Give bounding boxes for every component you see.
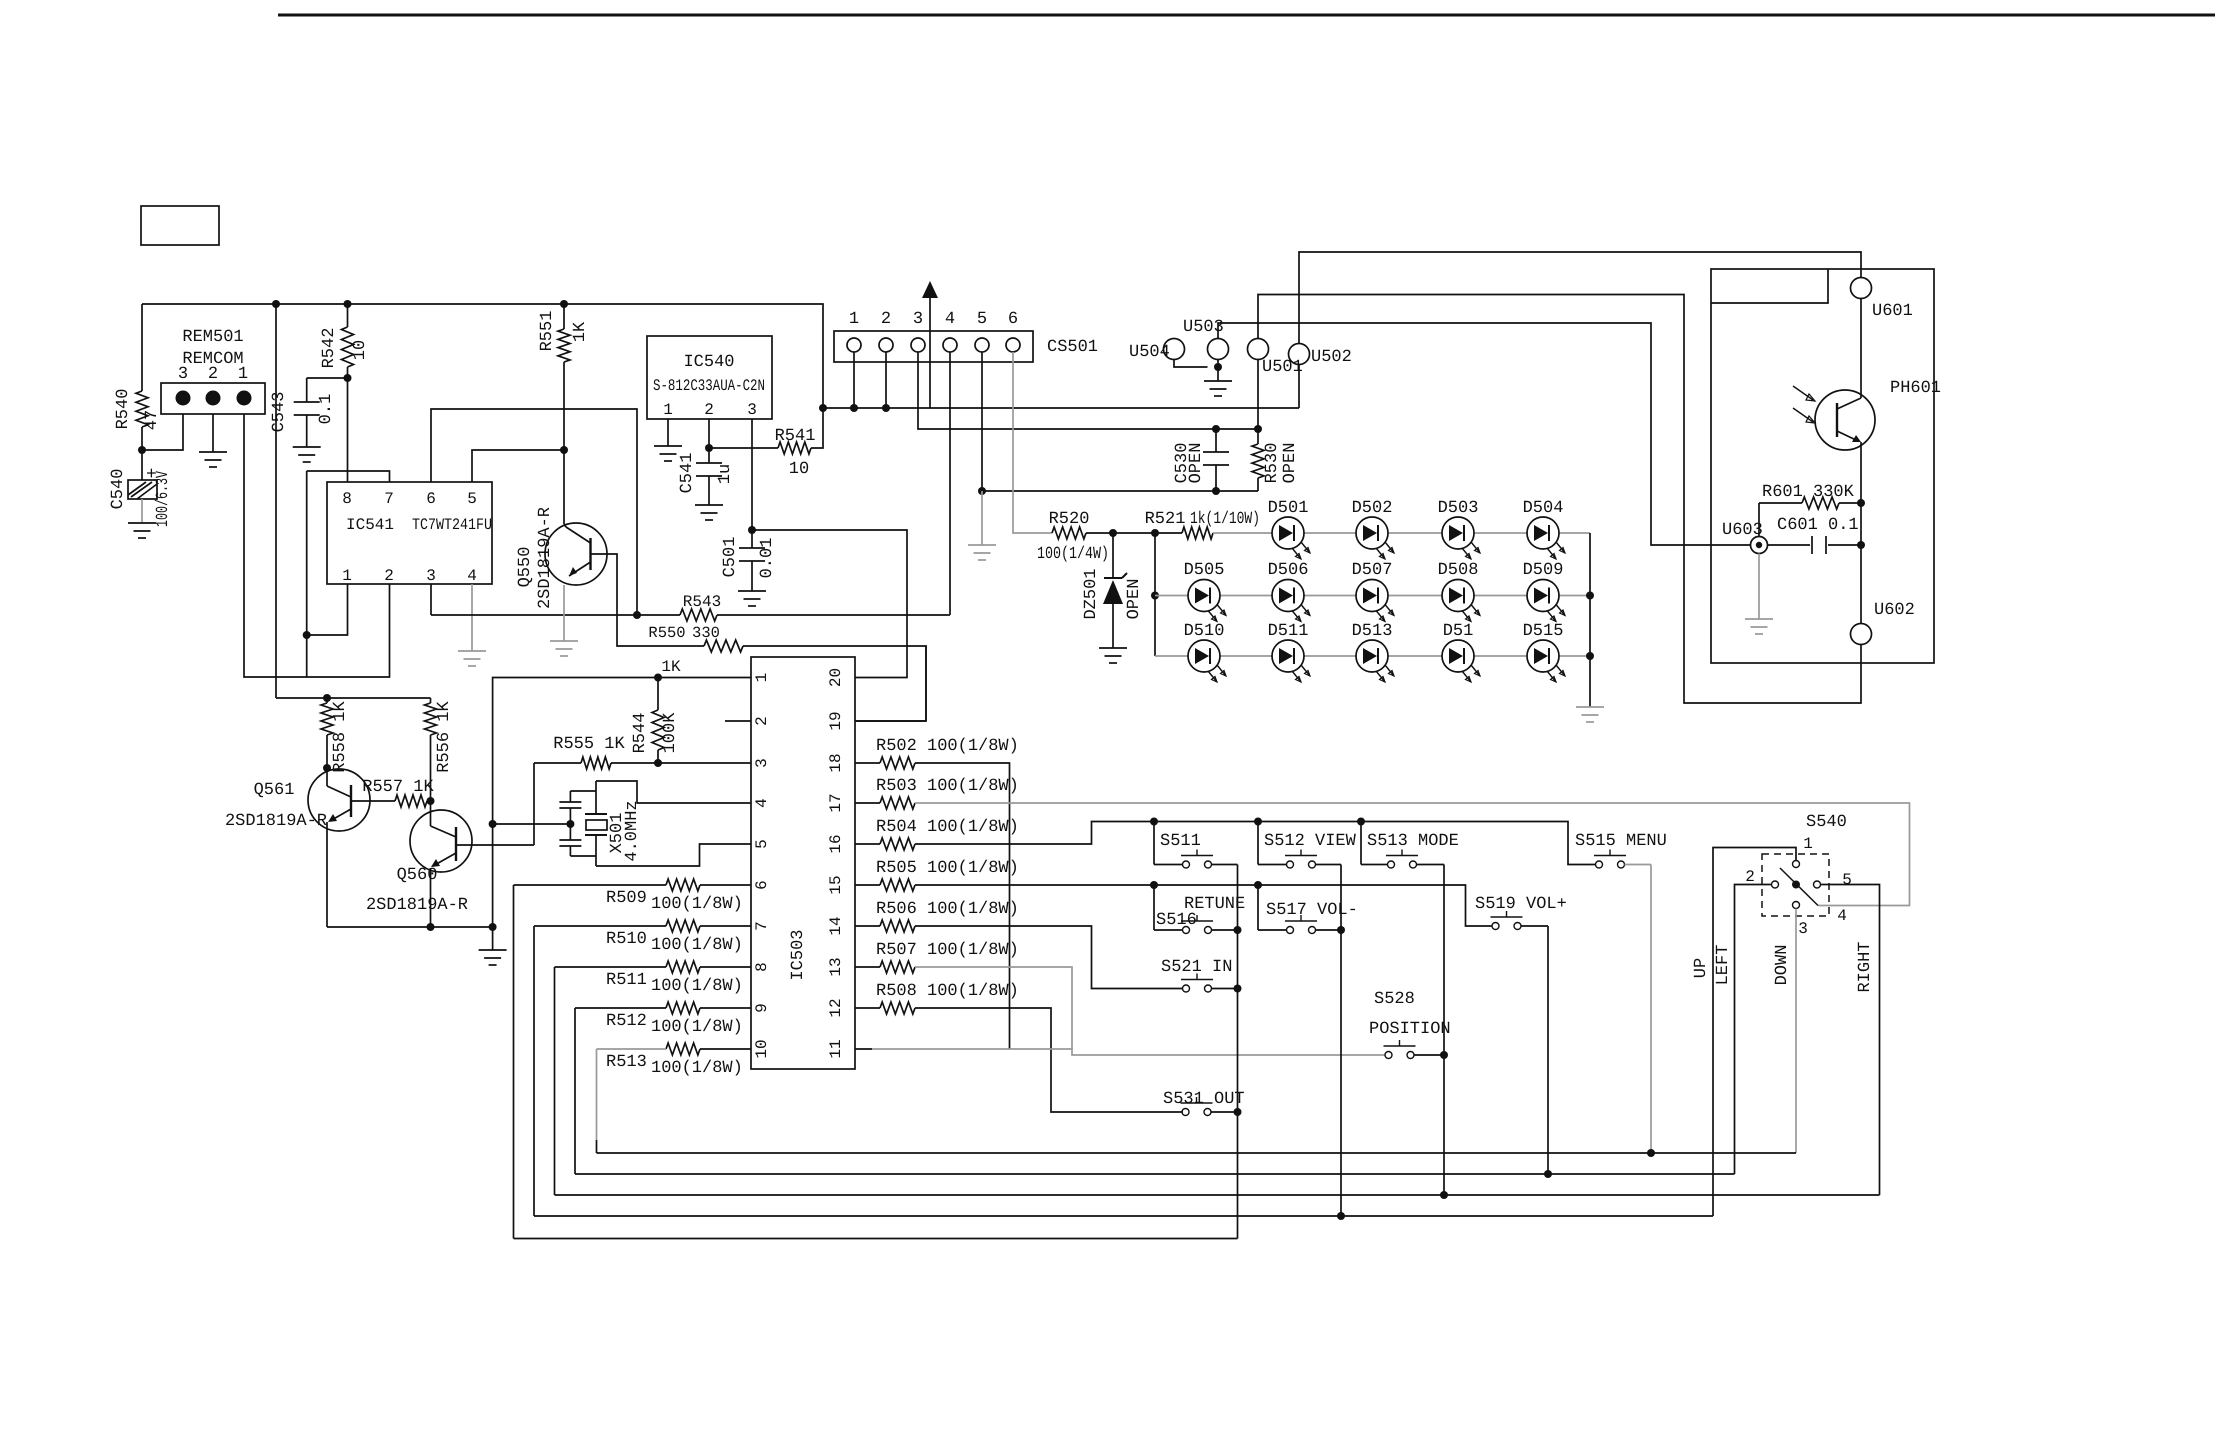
ground below emitter rail xyxy=(479,949,507,951)
wire IC541 pin6 to R543 node xyxy=(431,409,637,615)
IC IC503 xyxy=(751,657,855,1069)
svg-text:6: 6 xyxy=(426,490,436,508)
svg-text:15: 15 xyxy=(827,875,845,894)
wire S512/S517 column x=1341 xyxy=(1340,865,1342,1217)
svg-text:R555 1K: R555 1K xyxy=(553,735,625,754)
junction on bus at R542 xyxy=(344,300,352,308)
svg-text:R530: R530 xyxy=(1263,443,1282,484)
resistor R555 1K xyxy=(581,757,611,769)
svg-text:20: 20 xyxy=(827,668,845,687)
svg-text:R601 330K: R601 330K xyxy=(1762,483,1855,502)
svg-text:S-812C33AUA-C2N: S-812C33AUA-C2N xyxy=(653,377,765,395)
wire PH601 emitter down xyxy=(1860,442,1862,624)
resistor R512 100(1/8W) xyxy=(700,1007,751,1009)
pad U504 xyxy=(1164,339,1185,360)
wire R543 net y=615 xyxy=(431,614,680,616)
svg-text:R550: R550 xyxy=(648,624,685,642)
switch S513 MODE xyxy=(1360,822,1362,865)
ground below Q550 emitter xyxy=(550,640,578,642)
svg-text:5: 5 xyxy=(1842,871,1852,889)
wire base bias rail y=698 xyxy=(276,697,431,699)
LED D511 xyxy=(1272,640,1304,672)
svg-text:R551: R551 xyxy=(538,311,557,352)
title block rectangle xyxy=(141,206,219,245)
svg-text:S516: S516 xyxy=(1156,911,1197,930)
svg-text:D504: D504 xyxy=(1523,499,1564,518)
wire Q550 base to R550 xyxy=(591,554,705,646)
svg-text:D513: D513 xyxy=(1352,622,1393,641)
switch S521 IN xyxy=(1183,985,1190,992)
junction at R551 xyxy=(560,446,568,454)
svg-text:U602: U602 xyxy=(1874,601,1915,620)
resistor R530 OPEN xyxy=(1257,429,1259,444)
LED D506 xyxy=(1272,580,1304,612)
ground below REM501 pin2 xyxy=(199,451,227,453)
svg-text:17: 17 xyxy=(827,793,845,812)
wire U502 to U601 xyxy=(1298,365,1300,409)
wire R542 node down to IC541 pin8/pin7 xyxy=(347,378,349,482)
wire S511 column x=1237.5 xyxy=(1237,865,1239,1239)
wire U503 to U603 xyxy=(1218,323,1751,545)
svg-text:U504: U504 xyxy=(1129,343,1170,362)
svg-text:PH601: PH601 xyxy=(1890,379,1941,398)
wire matrix row 2 (R512 / S519 / LEFT) xyxy=(574,1008,576,1174)
zener diode DZ501 OPEN xyxy=(1112,533,1114,577)
svg-text:3: 3 xyxy=(178,365,188,384)
svg-text:100(1/8W): 100(1/8W) xyxy=(651,895,743,914)
svg-text:UP: UP xyxy=(1692,958,1711,978)
svg-text:19: 19 xyxy=(827,711,845,730)
svg-text:IC503: IC503 xyxy=(789,929,808,980)
svg-text:DZ501: DZ501 xyxy=(1082,568,1101,619)
svg-text:C601 0.1: C601 0.1 xyxy=(1777,516,1859,535)
svg-text:100K: 100K xyxy=(661,712,680,754)
resistor R508 100(1/8W) xyxy=(855,1007,880,1009)
resistor R601 330K xyxy=(1759,502,1802,504)
svg-text:9: 9 xyxy=(753,1003,771,1013)
svg-text:C541: C541 xyxy=(678,453,697,494)
resistor R544 100K xyxy=(657,678,659,711)
wire node to C543 xyxy=(307,377,348,379)
capacitor C530 OPEN xyxy=(1215,429,1217,452)
resistor R543 330 xyxy=(680,609,717,621)
wire IC540 pin3 / C501 node xyxy=(751,419,753,530)
switch S516 RETUNE xyxy=(1153,885,1155,930)
wire supply drop x=276 xyxy=(275,304,277,698)
svg-text:18: 18 xyxy=(827,753,845,772)
LED D503 xyxy=(1442,517,1474,549)
svg-text:5: 5 xyxy=(753,839,771,849)
svg-text:R556 1K: R556 1K xyxy=(435,701,454,773)
svg-text:10: 10 xyxy=(753,1039,771,1058)
svg-text:S521 IN: S521 IN xyxy=(1161,958,1232,977)
svg-text:R520: R520 xyxy=(1049,510,1090,529)
resistor R540 47 xyxy=(141,304,143,391)
svg-text:D507: D507 xyxy=(1352,561,1393,580)
resistor R506 100(1/8W) xyxy=(855,925,880,927)
svg-text:5: 5 xyxy=(977,310,987,329)
module notch xyxy=(1711,269,1828,303)
svg-text:2SD1819A-R: 2SD1819A-R xyxy=(366,896,468,915)
capacitor C601 0.1 xyxy=(1768,544,1811,546)
wire REM501 pin2 to ground xyxy=(212,414,214,452)
LED D508 xyxy=(1442,580,1474,612)
LED D501 xyxy=(1272,517,1304,549)
wire CS501 pin1 lead xyxy=(853,352,855,408)
svg-text:100(1/8W): 100(1/8W) xyxy=(651,977,743,996)
svg-text:1u: 1u xyxy=(716,464,735,484)
svg-text:12: 12 xyxy=(827,998,845,1017)
svg-text:8: 8 xyxy=(753,962,771,972)
ground below U603 xyxy=(1745,618,1773,620)
wire matrix row 1 (R513 / S515 / DOWN) xyxy=(596,1049,598,1140)
ground below C541 xyxy=(695,504,723,506)
wire S540 pin1 UP column xyxy=(1713,848,1796,1217)
svg-text:16: 16 xyxy=(827,834,845,853)
resistor R505 100(1/8W) xyxy=(855,884,880,886)
IC IC540 S-812C33AUA-C2N xyxy=(647,336,772,419)
svg-text:OPEN: OPEN xyxy=(1187,443,1206,484)
svg-text:R509: R509 xyxy=(606,889,647,908)
LED D513 xyxy=(1356,640,1388,672)
wire R504 to switch row1 bus xyxy=(915,822,1596,865)
wire bus y=408 xyxy=(823,407,1299,409)
svg-text:U603: U603 xyxy=(1722,521,1763,540)
svg-text:R512: R512 xyxy=(606,1012,647,1031)
svg-text:7: 7 xyxy=(753,921,771,931)
resistor R520 100(1/4W) xyxy=(1052,527,1086,539)
svg-text:6: 6 xyxy=(1008,310,1018,329)
svg-text:7: 7 xyxy=(384,490,394,508)
resistor R513 100(1/8W) xyxy=(700,1048,751,1050)
wire emitter ground rail xyxy=(327,926,493,928)
svg-text:S517 VOL-: S517 VOL- xyxy=(1266,901,1358,920)
svg-text:OPEN: OPEN xyxy=(1281,443,1300,484)
svg-text:R521: R521 xyxy=(1145,510,1186,529)
light arrows into PH601 xyxy=(1793,386,1813,400)
wire IC541 pin4 to ground xyxy=(471,584,473,651)
wire S540 pin3 DOWN column xyxy=(1795,909,1797,1154)
svg-text:4: 4 xyxy=(753,798,771,808)
resistor R550 1K xyxy=(704,640,743,652)
wire IC541 pin8/pin7 tie xyxy=(307,471,390,482)
CS501 pin 5 circle xyxy=(975,338,989,352)
svg-text:1: 1 xyxy=(342,567,352,585)
resistor R507 100(1/8W) xyxy=(855,966,880,968)
svg-text:R540: R540 xyxy=(114,389,133,430)
wire S513/S528 column x=1444 xyxy=(1443,865,1445,1196)
resistor R511 100(1/8W) xyxy=(700,966,751,968)
node junction R540/C540/REM pin3 xyxy=(138,446,146,454)
switch S528 POSITION xyxy=(1385,1052,1392,1059)
svg-text:S511: S511 xyxy=(1160,832,1201,851)
svg-text:3: 3 xyxy=(747,401,757,419)
resistor R551 1K xyxy=(563,304,565,329)
wire S540 pin2 LEFT column xyxy=(1735,885,1772,1175)
resistor R521 1k(1/10W) xyxy=(1182,527,1213,539)
wire IC541 pin3 down xyxy=(430,584,432,615)
junction pin1 link xyxy=(303,631,311,639)
svg-text:1k(1/10W): 1k(1/10W) xyxy=(1190,510,1260,529)
resistor R510 100(1/8W) xyxy=(700,925,751,927)
wire IC503 pin3 net xyxy=(611,762,751,764)
junction on bus at R551 xyxy=(560,300,568,308)
wire IC503 pin19 to R550 xyxy=(855,720,926,722)
switch S517 VOL- xyxy=(1257,885,1259,930)
wire LED row 3 xyxy=(1155,655,1590,657)
svg-text:13: 13 xyxy=(827,957,845,976)
pad U503 xyxy=(1208,339,1229,360)
IC IC541 TC7WT241FU xyxy=(327,482,492,584)
svg-text:5: 5 xyxy=(467,490,477,508)
svg-text:D51: D51 xyxy=(1443,622,1474,641)
svg-text:S513 MODE: S513 MODE xyxy=(1367,832,1459,851)
svg-text:1: 1 xyxy=(1803,835,1813,853)
svg-text:2: 2 xyxy=(881,310,891,329)
ground below LED matrix xyxy=(1576,706,1604,708)
CS501 pin 2 circle xyxy=(879,338,893,352)
svg-text:Q560: Q560 xyxy=(397,866,438,885)
LED D51 xyxy=(1442,640,1474,672)
svg-text:D511: D511 xyxy=(1268,622,1309,641)
wire matrix row 5 (R509 / S531 column) xyxy=(513,885,515,1239)
wire LED row 1 xyxy=(1213,532,1590,534)
junction on bus at x=276 xyxy=(272,300,280,308)
svg-text:S519 VOL+: S519 VOL+ xyxy=(1475,895,1567,914)
svg-text:S528: S528 xyxy=(1374,990,1415,1009)
svg-text:1: 1 xyxy=(849,310,859,329)
transistor Q550 2SD1819A-R xyxy=(545,523,607,585)
capacitor C540 100/6.3V electrolytic xyxy=(141,450,143,480)
LED D504 xyxy=(1527,517,1559,549)
connector CS501 xyxy=(834,331,1033,362)
svg-text:CS501: CS501 xyxy=(1047,338,1098,357)
svg-text:2: 2 xyxy=(1745,868,1755,886)
wire REM501 pin3 to R540 node xyxy=(142,414,183,450)
switch S515 MENU xyxy=(1596,861,1603,868)
svg-text:1K: 1K xyxy=(571,321,590,342)
capacitor C543 0.1 xyxy=(306,378,308,402)
svg-text:D515: D515 xyxy=(1523,622,1564,641)
resistor R558 1K xyxy=(326,698,328,703)
ground below U503 xyxy=(1204,380,1232,382)
svg-text:2: 2 xyxy=(384,567,394,585)
wire S519 column x=1548 xyxy=(1547,926,1549,1174)
svg-text:R557 1K: R557 1K xyxy=(362,778,434,797)
phototransistor PH601 xyxy=(1815,390,1875,450)
svg-text:10: 10 xyxy=(351,340,370,360)
LED D507 xyxy=(1356,580,1388,612)
wire R506 to S521 xyxy=(915,926,1183,989)
CS501 pin 1 circle xyxy=(847,338,861,352)
switch S512 VIEW xyxy=(1257,822,1259,865)
svg-text:Q550: Q550 xyxy=(516,547,535,588)
svg-text:RIGHT: RIGHT xyxy=(1856,941,1875,992)
power arrow symbol above CS501 xyxy=(929,296,931,408)
svg-text:100(1/8W): 100(1/8W) xyxy=(651,1018,743,1037)
CS501 pin 4 circle xyxy=(943,338,957,352)
svg-text:IC541: IC541 xyxy=(346,516,394,534)
wire: top supply bus xyxy=(142,304,823,408)
svg-text:C501: C501 xyxy=(721,537,740,578)
transistor Q560 2SD1819A-R xyxy=(410,810,472,872)
wire IC540 pin1 to ground xyxy=(667,419,669,446)
svg-text:R511: R511 xyxy=(606,971,647,990)
svg-text:100(1/8W): 100(1/8W) xyxy=(651,1059,743,1078)
LED D509 xyxy=(1527,580,1559,612)
wire down from pin8 tie to pin1 link xyxy=(306,471,308,677)
svg-text:100/6.3V: 100/6.3V xyxy=(154,470,173,527)
ground below CS501 pin5 xyxy=(968,544,996,546)
capacitor C541 1u xyxy=(708,448,710,463)
wire S515 column x=1651 xyxy=(1650,865,1652,1154)
svg-text:R541: R541 xyxy=(775,427,816,446)
wire crystal top to IC503 pin4 xyxy=(596,781,751,803)
svg-text:4: 4 xyxy=(1837,907,1847,925)
svg-text:14: 14 xyxy=(827,916,845,935)
LED D515 xyxy=(1527,640,1559,672)
svg-text:R506 100(1/8W): R506 100(1/8W) xyxy=(876,900,1019,919)
svg-text:2SD1819A-R: 2SD1819A-R xyxy=(536,507,555,609)
svg-text:S531 OUT: S531 OUT xyxy=(1163,1090,1245,1109)
svg-text:Q561: Q561 xyxy=(254,781,295,800)
top border line xyxy=(278,14,2215,17)
wire crystal bottom to IC503 pin5 xyxy=(596,844,751,866)
svg-text:0.01: 0.01 xyxy=(758,538,777,579)
wire matrix row 4 (R510 / S517 / UP) xyxy=(533,926,535,1216)
wire IC541 pin1 link xyxy=(307,584,348,635)
svg-text:R508 100(1/8W): R508 100(1/8W) xyxy=(876,982,1019,1001)
wire R505 to switch row2 bus xyxy=(915,885,1492,926)
svg-text:U601: U601 xyxy=(1872,302,1913,321)
node R542/C543/IC541 pin8 xyxy=(344,374,352,382)
wire S540 pin5 RIGHT column xyxy=(1821,885,1880,1196)
svg-text:4.0MHz: 4.0MHz xyxy=(623,800,642,861)
wire R503 to S540 pin4 xyxy=(915,803,1910,906)
svg-text:1: 1 xyxy=(238,365,248,384)
wire CS501 pin2 lead xyxy=(885,352,887,408)
ground below C501 xyxy=(738,590,766,592)
pad U501 xyxy=(1248,339,1269,360)
svg-text:R558 1K: R558 1K xyxy=(331,701,350,773)
svg-text:S540: S540 xyxy=(1806,813,1847,832)
capacitor C501 0.01 xyxy=(751,530,753,548)
svg-text:IC540: IC540 xyxy=(683,353,734,372)
wire LED cathode vertical xyxy=(1589,533,1591,707)
ground below DZ501 xyxy=(1099,647,1127,649)
LED D505 xyxy=(1188,580,1220,612)
PH601 receiver module box xyxy=(1711,269,1934,663)
resistor R509 100(1/8W) xyxy=(700,884,751,886)
svg-text:2SD1819A-R: 2SD1819A-R xyxy=(225,812,327,831)
resistor R542 10 xyxy=(347,304,349,327)
wire U501 to U602 xyxy=(1258,295,1861,704)
LED D502 xyxy=(1356,517,1388,549)
junction R543 net xyxy=(633,611,641,619)
wire Q560 collector to R555 xyxy=(456,844,534,846)
resistor R502 100(1/8W) xyxy=(855,762,880,764)
svg-text:3: 3 xyxy=(753,758,771,768)
svg-text:2: 2 xyxy=(704,401,714,419)
wire U603 to ground xyxy=(1758,503,1760,537)
svg-text:R542: R542 xyxy=(320,328,339,369)
svg-text:2: 2 xyxy=(753,716,771,726)
wire CS501 pin3 to C530 net xyxy=(918,352,1258,429)
switch S519 VOL+ xyxy=(1492,923,1499,930)
svg-text:6: 6 xyxy=(753,880,771,890)
pad U603 xyxy=(1751,537,1768,554)
wire C501 node to IC503 pin20 xyxy=(752,530,907,678)
svg-text:100(1/8W): 100(1/8W) xyxy=(651,936,743,955)
wire cap tap to ground net xyxy=(493,823,571,825)
CS501 pin 6 circle xyxy=(1006,338,1020,352)
svg-text:2: 2 xyxy=(208,365,218,384)
wire IC503 pin1 ground net xyxy=(493,678,751,928)
svg-text:D505: D505 xyxy=(1184,561,1225,580)
wire R508 to S531 xyxy=(915,1008,1183,1112)
wire R555 to Q560 collector xyxy=(533,763,535,845)
svg-text:TC7WT241FU: TC7WT241FU xyxy=(412,516,492,534)
crystal X501 4.0MHz xyxy=(570,790,596,792)
svg-text:100(1/4W): 100(1/4W) xyxy=(1037,545,1109,564)
wire IC541 pin5 to R551 xyxy=(472,450,564,482)
wire IC503 pin11 to S528 xyxy=(855,1048,872,1050)
IC503 pin2 stub xyxy=(725,720,751,722)
ground below IC541 pin4 xyxy=(458,650,486,652)
svg-text:DOWN: DOWN xyxy=(1773,945,1792,986)
svg-text:10: 10 xyxy=(789,460,809,479)
svg-text:D501: D501 xyxy=(1268,499,1309,518)
S540 lever xyxy=(1780,868,1818,906)
svg-text:REM501: REM501 xyxy=(182,328,243,347)
svg-text:OPEN: OPEN xyxy=(1125,579,1144,620)
pad U602 xyxy=(1851,624,1872,645)
svg-text:8: 8 xyxy=(342,490,352,508)
svg-text:R503 100(1/8W): R503 100(1/8W) xyxy=(876,777,1019,796)
wire CS501 pin5 to ground net xyxy=(981,352,983,491)
svg-text:1: 1 xyxy=(663,401,673,419)
wire IC540 pin2 node xyxy=(708,419,710,448)
resistor R541 10 xyxy=(709,447,778,449)
svg-text:POSITION: POSITION xyxy=(1369,1020,1451,1039)
resistor R556 1K xyxy=(430,698,432,703)
load capacitors for X501 xyxy=(569,791,571,802)
svg-text:C543: C543 xyxy=(270,392,289,433)
svg-text:0.1: 0.1 xyxy=(317,394,336,425)
svg-text:D506: D506 xyxy=(1268,561,1309,580)
svg-text:11: 11 xyxy=(827,1039,845,1058)
svg-text:1K: 1K xyxy=(661,658,681,676)
svg-text:1: 1 xyxy=(753,673,771,683)
pad U601 xyxy=(1851,278,1872,299)
svg-text:S515 MENU: S515 MENU xyxy=(1575,832,1667,851)
svg-text:U502: U502 xyxy=(1311,348,1352,367)
wire CS501 pin6 to R520 xyxy=(1013,352,1052,533)
connector REM501 REMCOM xyxy=(161,383,265,414)
ground below C540 xyxy=(128,522,156,524)
svg-text:R505 100(1/8W): R505 100(1/8W) xyxy=(876,859,1019,878)
svg-text:3: 3 xyxy=(1798,920,1808,938)
switch S511 xyxy=(1153,822,1155,865)
svg-text:47: 47 xyxy=(143,410,162,430)
wire CS501 pin4 to R543 xyxy=(949,352,951,615)
svg-text:D503: D503 xyxy=(1438,499,1479,518)
ground below C543 xyxy=(293,446,321,448)
svg-text:R504 100(1/8W): R504 100(1/8W) xyxy=(876,818,1019,837)
svg-text:C540: C540 xyxy=(109,469,128,510)
resistor R503 100(1/8W) xyxy=(855,802,880,804)
svg-text:R513: R513 xyxy=(606,1053,647,1072)
